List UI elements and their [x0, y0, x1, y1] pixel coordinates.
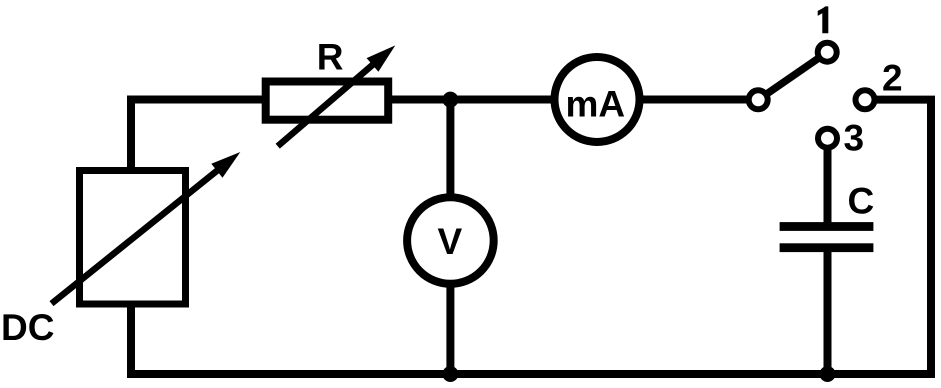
node junction dot voltmeter-bottom bus [442, 366, 458, 382]
label 1 (custom Arial-style glyph without foot) [818, 6, 829, 33]
node junction dot capacitor-bottom bus [820, 366, 836, 382]
svg-text:DC: DC [1, 307, 54, 348]
svg-text:mA: mA [566, 84, 626, 125]
svg-text:V: V [438, 221, 463, 262]
voltmeter V [407, 197, 494, 284]
wire: resistor right to switch common (passes under mA meter) [392, 96, 758, 104]
svg-text:2: 2 [882, 57, 903, 98]
resistor R (variable) [266, 82, 389, 120]
node junction dot at resistor/voltmeter tap [442, 92, 458, 108]
switch contact 1 circle [818, 43, 837, 62]
wire: DC bottom lead, bottom bus, right riser up to contact 2 [131, 100, 931, 374]
DC source V1 (rectangle) [80, 171, 186, 305]
resistor R variability arrow [278, 59, 380, 147]
wire: capacitor bottom plate lead down to bottom bus [824, 248, 832, 374]
wire: left branch from top wire down to DC source top [131, 100, 262, 168]
wire: contact 3 lead down to capacitor top plate [824, 138, 832, 226]
switch contact 2 circle [856, 90, 875, 109]
wire: voltmeter branch from node down to bottom bus (passes under V meter) [446, 100, 454, 374]
capacitor C bottom plate [780, 243, 874, 252]
milliammeter mA [555, 57, 640, 142]
svg-text:C: C [848, 180, 875, 221]
switch contact 3 circle [818, 129, 837, 148]
capacitor C top plate [780, 222, 874, 231]
switch blade from common toward contact 1 [758, 52, 827, 100]
switch common terminal circle [749, 90, 768, 109]
svg-text:3: 3 [844, 117, 865, 158]
svg-text:R: R [317, 37, 344, 78]
DC source variability arrow [52, 164, 226, 303]
